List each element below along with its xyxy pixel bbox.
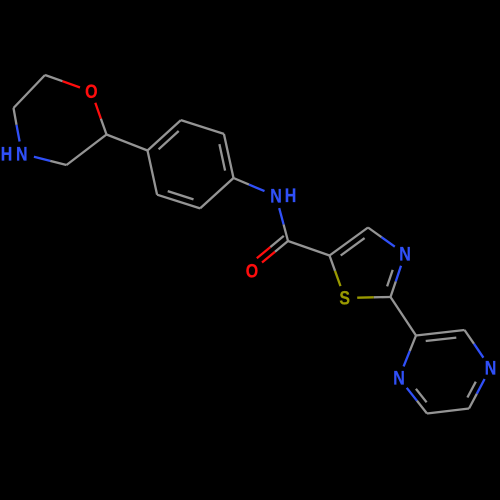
bond C2t-N3 [387,266,401,297]
svg-text:N: N [485,357,497,379]
bond Nam-Cam [279,208,288,241]
bond C2m-B1 [107,135,148,151]
bond C6m-O1 [45,75,80,88]
bond C5m-C6m [14,75,46,108]
bond N4m-C5m [14,108,20,142]
svg-text:H: H [1,143,13,165]
bond B2-B3 [181,120,224,134]
svg-text:H: H [285,184,297,206]
bond C5t-S1 [330,256,341,287]
bond N3-C4t [368,228,395,247]
bond S1-C2t [357,296,390,299]
svg-text:N: N [270,185,282,207]
bond Cbr-Cbl [427,409,469,414]
svg-text:N: N [16,143,28,165]
bond B5-B6 [157,191,200,208]
svg-text:O: O [246,260,259,282]
bond Cbl-Np1 [407,388,427,414]
bond Ctl-Ctr [416,330,465,341]
svg-text:N: N [399,243,411,265]
bond Np1-Ctl [404,336,416,367]
bond C3m-N4m [34,157,67,165]
bond C2m-C3m [67,135,107,166]
bond Cam-Oco [257,236,288,263]
bond B6-B1 [148,151,158,195]
bond B4-Nam [234,178,265,191]
bond Np4-Cbr [467,379,484,409]
bond Ctr-Np4 [465,330,484,358]
bond B4-B5 [200,178,233,208]
bond C2t-Ctl [391,297,417,336]
svg-text:S: S [339,287,350,309]
svg-text:N: N [393,367,405,389]
svg-text:O: O [85,81,98,103]
bond B3-B4 [219,134,233,178]
bond C4t-C5t [330,228,369,256]
bond B1-B2 [148,120,181,150]
bond O1-C2m [95,103,106,135]
bond Cam-C5t [288,241,330,256]
